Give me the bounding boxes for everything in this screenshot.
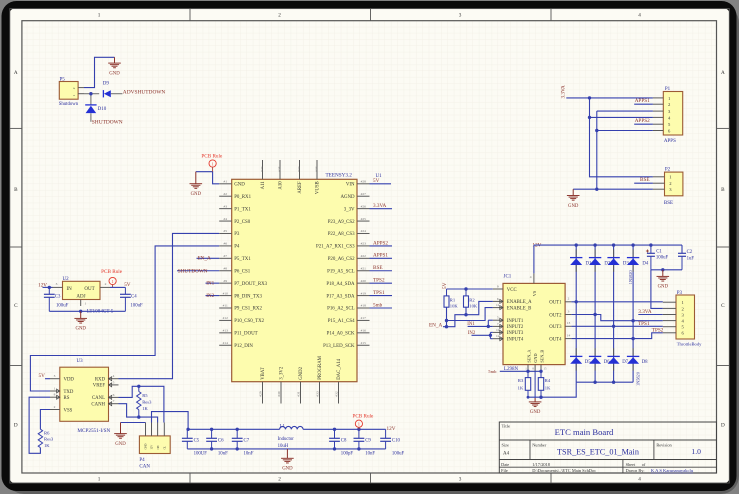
directive PCB Rule (U1): [201, 153, 223, 171]
capacitor C1 100uF: [646, 243, 669, 269]
capacitor C4 100uF: [120, 287, 143, 311]
junctions EN_A net: [445, 313, 468, 328]
net label TPS1 (P3 pin5): [638, 321, 650, 327]
svg-text:IN1: IN1: [206, 280, 214, 286]
svg-text:3: 3: [459, 13, 462, 19]
JC1 pin 14 (OUT4): [549, 333, 571, 342]
svg-text:9: 9: [497, 285, 499, 289]
ground GND (C1 C2): [657, 270, 670, 290]
net label IN2 (U1 P8) with wire: [206, 293, 220, 299]
svg-text:IN2: IN2: [468, 331, 476, 336]
svg-text:P22_A8_CS3: P22_A8_CS3: [328, 232, 355, 237]
svg-text:#29: #29: [259, 391, 263, 397]
svg-text:ENABLE_B: ENABLE_B: [507, 306, 532, 311]
U1 pin 14 (P12_DIN): [219, 341, 253, 349]
svg-text:CANL: CANL: [92, 396, 105, 401]
diode D9: [103, 82, 111, 98]
U1 pin 8 (P6_CS1): [219, 266, 251, 274]
junction R5 bottom: [137, 415, 140, 418]
svg-text:B: B: [721, 187, 725, 193]
U1 pin 10 (P8_DIN_TX3): [219, 291, 262, 299]
wire P1 pin3 ground branch: [597, 110, 653, 112]
svg-text:2: 2: [54, 405, 56, 409]
svg-text:INPUT3: INPUT3: [507, 331, 524, 336]
svg-text:2: 2: [72, 87, 76, 89]
svg-text:D4: D4: [642, 261, 648, 266]
svg-text:ENABLE_A: ENABLE_A: [507, 300, 532, 305]
svg-text:A: A: [14, 70, 18, 76]
U1 bottom pin 33 (PROGRAM): [316, 355, 324, 403]
svg-text:P5_TX1: P5_TX1: [234, 257, 251, 262]
svg-text:#8: #8: [223, 266, 227, 270]
resistor R4 1K: [538, 371, 551, 397]
junction C9: [357, 428, 360, 451]
svg-text:3.3VA: 3.3VA: [561, 85, 567, 99]
svg-text:OUT2: OUT2: [549, 313, 562, 318]
U3 pin 6 (CANL): [92, 393, 119, 401]
svg-text:B: B: [14, 187, 18, 193]
U1 bottom pin 29 (VBAT): [259, 367, 267, 403]
svg-text:#25: #25: [277, 166, 281, 172]
svg-text:CH: CH: [157, 446, 160, 450]
junction C7: [236, 428, 239, 451]
svg-text:Inductor: Inductor: [278, 437, 295, 442]
svg-text:AGND: AGND: [340, 195, 355, 200]
svg-text:P18_A4_SDA: P18_A4_SDA: [326, 282, 355, 287]
connector P4 CAN: [139, 423, 170, 470]
svg-text:P7_DOUT_RX3: P7_DOUT_RX3: [234, 282, 267, 287]
wire U1 P4 to U3 TXD: [30, 246, 219, 391]
svg-text:7: 7: [113, 399, 115, 403]
wire U1 GND pin1 to ground via PCB rule node: [196, 172, 219, 184]
svg-text:JC1: JC1: [504, 275, 512, 280]
svg-text:#10: #10: [223, 291, 229, 295]
svg-text:EN_A: EN_A: [429, 322, 443, 328]
svg-text:10nF: 10nF: [218, 451, 228, 456]
svg-text:#27: #27: [361, 192, 367, 196]
svg-text:GND: GND: [568, 204, 579, 209]
U1 pin 21 (P19_A5_SCL): [327, 266, 369, 274]
svg-text:100uF: 100uF: [392, 451, 405, 456]
svg-text:12: 12: [496, 334, 500, 338]
net label SHUTDOWN (U1 P6_CS1) with wire: [177, 268, 219, 274]
svg-text:4: 4: [530, 275, 532, 279]
svg-text:P21_A7_RX1_CS3: P21_A7_RX1_CS3: [316, 245, 355, 250]
wire diode return rail: [528, 382, 576, 397]
svg-text:#32: #32: [297, 166, 301, 172]
svg-text:#32: #32: [335, 391, 339, 397]
svg-text:C7: C7: [244, 439, 250, 444]
wire R2 bottom to ENABLE_A: [466, 301, 493, 314]
svg-text:Res3: Res3: [142, 399, 152, 404]
wire U3 CANL to P4 pin4: [119, 386, 164, 422]
svg-text:100uF: 100uF: [130, 304, 143, 309]
diode D8 1N5820: [627, 348, 648, 370]
svg-text:EN_A: EN_A: [198, 256, 212, 262]
svg-text:5V: 5V: [373, 178, 380, 184]
svg-text:P9_CS1_RX2: P9_CS1_RX2: [234, 307, 262, 312]
U1 pin 9 (P7_DOUT_RX3): [219, 279, 267, 287]
wire U2 bottom rail: [49, 310, 125, 312]
wire GND to P2 pin3: [573, 188, 653, 190]
U1 pin 26 (3_3V): [344, 204, 370, 212]
svg-text:D10: D10: [98, 107, 107, 112]
svg-text:TSR_ES_ETC_01_Main: TSR_ES_ETC_01_Main: [557, 447, 639, 456]
net label EN_A (U1 P5_TX1) with wire: [197, 256, 220, 262]
wire U3 VSS to R6 top: [40, 410, 50, 430]
svg-text:D7: D7: [622, 360, 628, 365]
svg-text:P2_CS0: P2_CS0: [234, 220, 251, 225]
svg-text:File: File: [501, 468, 508, 473]
JC1 pin 5 (INPUT1): [493, 316, 524, 324]
junction ADJ bottom: [79, 310, 82, 313]
net label APPS1 (P1 pin2) with wire: [634, 98, 653, 104]
svg-text:3: 3: [568, 309, 570, 313]
ground GND (P5): [108, 57, 121, 76]
junction R5 top: [137, 385, 140, 388]
svg-text:P2: P2: [665, 168, 671, 173]
svg-text:3: 3: [54, 374, 56, 378]
U1 pin 6 (P4): [219, 242, 240, 250]
svg-text:GND: GND: [234, 183, 245, 188]
part name LT1084CT-5: [87, 309, 114, 315]
svg-text:C1: C1: [656, 250, 662, 255]
net label 5V (JC1 VCC): [442, 282, 448, 289]
svg-text:1uF: 1uF: [687, 257, 695, 262]
wire U1 P3 to U3 RXD: [119, 233, 220, 378]
svg-text:TEENSY3.2: TEENSY3.2: [326, 173, 353, 179]
svg-text:CAN: CAN: [139, 464, 150, 469]
wire 3.3VA to P1 pin1: [566, 96, 653, 99]
svg-text:4: 4: [638, 13, 641, 19]
U3 pin 2 (VSS): [50, 405, 73, 413]
JC1 bottom pins 1,8,15: [525, 365, 547, 372]
net label APPS1 (U1 pin 22) with wire: [370, 253, 393, 259]
svg-text:SHUTDOWN: SHUTDOWN: [178, 268, 208, 274]
svg-text:#9: #9: [223, 279, 227, 283]
svg-text:R2: R2: [469, 298, 475, 303]
wire P5 pin2 to GND: [84, 57, 115, 87]
svg-text:K A S Karunanayakclu: K A S Karunanayakclu: [651, 468, 694, 473]
title block: [499, 422, 716, 473]
wire diode column 3: [613, 245, 615, 382]
svg-text:5V: 5V: [124, 282, 131, 288]
U1 pin 23 (P21_A7_RX1_CS3): [316, 242, 369, 250]
svg-text:1K: 1K: [44, 443, 50, 448]
net label 3.3VA (P3 pin3) with wire: [638, 309, 663, 315]
net label TPS2 (U1 pin 20) with wire: [370, 278, 393, 284]
net label IN2 (JC1) with wire: [468, 331, 493, 339]
net label 3.3VA (APPS) rotated: [561, 85, 567, 99]
svg-text:SEN_A: SEN_A: [527, 350, 532, 363]
regulator U2 LT1084CT-5 body: [63, 277, 101, 300]
svg-text:3.3VA: 3.3VA: [638, 309, 652, 315]
svg-text:P0_RX1: P0_RX1: [234, 195, 251, 200]
svg-text:TPS2: TPS2: [652, 328, 664, 334]
wire U2 OUT to 5V: [110, 286, 125, 288]
net label IN1 (JC1) with wire: [467, 320, 493, 328]
svg-text:14: 14: [567, 333, 571, 337]
svg-text:INPUT1: INPUT1: [507, 319, 524, 324]
U1 pin 13 (P11_DOUT): [219, 329, 257, 337]
svg-text:Res3: Res3: [44, 437, 54, 442]
capacitor C3 100uF: [44, 287, 69, 311]
svg-text:GND: GND: [530, 410, 541, 415]
svg-text:P17_A3_SDA: P17_A3_SDA: [326, 294, 355, 299]
wire ground rail to P3 pin2: [651, 270, 663, 309]
svg-text:1N5820: 1N5820: [628, 270, 633, 284]
svg-text:APPS1: APPS1: [635, 98, 650, 104]
svg-text:Number: Number: [532, 442, 547, 447]
diode D7 1N5820: [607, 348, 628, 370]
svg-text:R3: R3: [518, 378, 524, 383]
svg-text:PCB Rule: PCB Rule: [352, 413, 374, 419]
svg-text:TPS1: TPS1: [373, 290, 385, 296]
svg-text:VBAT: VBAT: [261, 367, 266, 380]
svg-text:GND: GND: [145, 443, 148, 449]
microcontroller U1 TEENSY3.2 body: [232, 173, 382, 382]
JC1 pin 7 (INPUT2): [493, 322, 524, 330]
wire diode column 4: [632, 245, 634, 382]
svg-text:PCB Rule: PCB Rule: [201, 153, 223, 159]
svg-text:U3: U3: [77, 359, 84, 364]
svg-text:#33: #33: [314, 166, 318, 172]
svg-text:TPS1: TPS1: [638, 321, 650, 327]
svg-text:15: 15: [544, 366, 548, 370]
ground GND (APPS): [567, 189, 580, 209]
svg-text:C: C: [14, 303, 18, 309]
net label TPS1 (U1 pin 19) with wire: [370, 290, 393, 296]
svg-text:A4: A4: [503, 452, 510, 457]
inductor L1 10uH: [278, 424, 304, 448]
svg-text:GND: GND: [75, 327, 86, 332]
svg-text:C6: C6: [218, 439, 224, 444]
svg-text:6: 6: [497, 297, 499, 301]
svg-text:1.0: 1.0: [691, 447, 701, 456]
svg-text:GND: GND: [658, 285, 669, 290]
svg-text:Revision: Revision: [656, 442, 672, 447]
wire P4 pin2 to 12V rail: [152, 412, 189, 430]
svg-text:10nF: 10nF: [244, 451, 254, 456]
resistor R6 Res3 1K: [38, 429, 54, 448]
svg-text:P1_TX1: P1_TX1: [234, 207, 251, 212]
svg-text:10nF: 10nF: [365, 451, 375, 456]
svg-text:Drawn By:: Drawn By:: [626, 468, 645, 473]
wire P1 pin6 ground branch: [595, 129, 653, 132]
svg-text:GND: GND: [533, 354, 538, 363]
svg-text:8: 8: [54, 393, 56, 397]
svg-text:1K: 1K: [518, 386, 524, 391]
U1 pin 17 (P15_A1_CS4): [328, 316, 370, 324]
svg-text:VUSB: VUSB: [316, 181, 321, 194]
svg-text:L1: L1: [280, 424, 286, 429]
svg-text:5V: 5V: [39, 373, 46, 379]
svg-text:#24: #24: [361, 229, 367, 233]
svg-text:Sheet: Sheet: [626, 462, 636, 467]
svg-text:5V: 5V: [442, 282, 448, 289]
svg-text:RXD: RXD: [95, 378, 106, 383]
svg-text:OUT3: OUT3: [549, 325, 562, 330]
JC1 pin 3 (OUT2): [549, 309, 571, 318]
svg-text:#21: #21: [361, 266, 367, 270]
svg-text:#30: #30: [277, 391, 281, 397]
capacitor C5 100UF: [182, 429, 207, 456]
wire filter bottom rail: [187, 448, 385, 450]
U1 pin 20 (P18_A4_SDA): [326, 279, 369, 287]
svg-text:BSE: BSE: [373, 265, 383, 271]
svg-text:P3: P3: [234, 232, 240, 237]
wire U3 RS to R6 bottom: [29, 397, 50, 453]
junction 12V rail col 3: [612, 243, 615, 246]
connector P3 ThrottleBody: [663, 291, 702, 346]
net label BSE (U1 pin 21) with wire: [370, 265, 393, 271]
JC1 pin 11 (ENABLE_B): [493, 303, 532, 311]
svg-text:#2: #2: [223, 192, 227, 196]
svg-text:Shutdown: Shutdown: [59, 102, 79, 107]
svg-text:10K: 10K: [450, 304, 459, 309]
svg-text:GND: GND: [282, 467, 293, 472]
svg-text:SEN_B: SEN_B: [539, 350, 544, 363]
value label 1N5820 (bottom row): [635, 372, 640, 386]
svg-text:CL: CL: [164, 446, 167, 450]
svg-text:#23: #23: [361, 242, 367, 246]
svg-text:#26: #26: [361, 204, 367, 208]
svg-text:P16_A2_SCL: P16_A2_SCL: [327, 307, 354, 312]
svg-text:1: 1: [98, 477, 101, 483]
svg-text:3_3V: 3_3V: [344, 207, 355, 212]
part name MCP2551-I/SN: [77, 428, 110, 434]
capacitor C9 10nF: [354, 429, 376, 456]
svg-text:#31: #31: [297, 391, 301, 397]
svg-text:C8: C8: [341, 439, 347, 444]
svg-text:2: 2: [278, 13, 281, 19]
svg-text:5mb: 5mb: [488, 369, 497, 374]
svg-text:3: 3: [459, 477, 462, 483]
U3 pin 1 (TXD): [50, 387, 74, 395]
diode D3 1N5820: [607, 249, 629, 271]
junction 12V rail col 4: [631, 243, 634, 246]
wire ground vertical (sensors): [595, 111, 598, 191]
svg-text:C5: C5: [194, 439, 200, 444]
wire C1 C2 ground rail: [651, 268, 682, 271]
JC1 pin 4 (VS): [530, 273, 534, 283]
svg-text:13: 13: [567, 321, 571, 325]
svg-text:ADJ: ADJ: [76, 294, 85, 299]
U1 pin 12 (P10_CS0_TX2): [219, 316, 264, 324]
svg-text:CANH: CANH: [91, 403, 105, 408]
svg-text:Date: Date: [501, 462, 509, 467]
wire OUT1 to P3 pin1: [571, 300, 662, 303]
svg-text:10K: 10K: [469, 304, 478, 309]
svg-text:VSS: VSS: [64, 408, 73, 413]
svg-text:#6: #6: [223, 242, 227, 246]
junction C6: [210, 428, 213, 451]
wire 12V to U2 IN: [43, 286, 53, 288]
svg-text:ETC main Board: ETC main Board: [555, 427, 614, 437]
svg-text:#1: #1: [223, 180, 227, 184]
U1 pin 15 (P13_LED_SCK): [323, 341, 369, 349]
U2 pin 3 (IN): [53, 282, 63, 287]
svg-text:P8_DIN_TX3: P8_DIN_TX3: [234, 294, 262, 299]
net label APPS2 (P1 pin5) with wire: [634, 118, 653, 124]
transceiver U3 MCP2551 body: [60, 359, 109, 422]
svg-text:A: A: [721, 70, 725, 76]
svg-text:#13: #13: [223, 329, 229, 333]
diode D2 1N5820: [589, 249, 611, 271]
svg-text:R5: R5: [142, 393, 148, 398]
svg-text:#3: #3: [223, 204, 227, 208]
net label ADVSHUTDOWN: [123, 89, 166, 95]
svg-text:#4: #4: [223, 217, 227, 221]
svg-text:P3: P3: [677, 291, 683, 296]
U3 pin 8 (RS): [50, 393, 70, 401]
svg-text:IN1: IN1: [467, 322, 475, 327]
svg-text:7: 7: [497, 322, 499, 326]
junction C5 top: [186, 428, 189, 431]
svg-text:5: 5: [113, 380, 115, 384]
svg-text:3.3VA: 3.3VA: [373, 203, 387, 209]
net label 5mb (U1 pin 18) with wire: [370, 302, 393, 308]
diode D5 1N5820: [570, 348, 591, 370]
svg-text:OUT4: OUT4: [549, 337, 562, 342]
wire R1 bottom vertical: [446, 307, 448, 327]
svg-text:R4: R4: [545, 378, 551, 383]
junction P5 net: [89, 92, 92, 95]
U1 pin 24 (P22_A8_CS3): [328, 229, 370, 237]
wire P1 pin4 supply branch: [588, 116, 653, 119]
JC1 pin 10 (INPUT3): [493, 328, 524, 336]
svg-text:#20: #20: [361, 279, 367, 283]
JC1 pin 9 (VCC): [493, 285, 517, 293]
net label SHUTDOWN: [92, 119, 123, 125]
svg-text:ADVSHUTDOWN: ADVSHUTDOWN: [123, 89, 166, 95]
driver JC1 L298N body: [503, 275, 565, 372]
svg-text:6: 6: [113, 393, 115, 397]
U3 pin 4 (RXD): [95, 374, 119, 382]
svg-text:P15_A1_CS4: P15_A1_CS4: [328, 319, 355, 324]
svg-text:R1: R1: [450, 298, 456, 303]
resistor R2 10K: [464, 289, 478, 309]
ground GND (filter): [281, 449, 294, 472]
net label 5V (U2 OUT): [124, 282, 131, 288]
svg-text:1N5820: 1N5820: [635, 372, 640, 386]
svg-text:SHUTDOWN: SHUTDOWN: [92, 119, 123, 125]
svg-text:VS: VS: [532, 290, 537, 296]
svg-text:INPUT4: INPUT4: [507, 338, 524, 343]
wire U3 CANH to P4 pin3: [119, 404, 158, 423]
ground GND (P4): [114, 423, 127, 447]
junction R2 top: [464, 287, 467, 290]
svg-text:10uH: 10uH: [278, 444, 289, 449]
svg-text:D9: D9: [103, 82, 110, 87]
JC1 pin 12 (INPUT4): [493, 334, 524, 342]
resistor R3 1K: [518, 371, 531, 397]
value label 1N5820 (top row): [628, 270, 633, 284]
net label 12V (JC1 VS): [532, 242, 541, 248]
svg-text:PCB Rule: PCB Rule: [101, 269, 123, 275]
svg-text:D:\Documents\..\ETC Main SchDo: D:\Documents\..\ETC Main SchDoc: [532, 468, 596, 473]
wire EN_A branch to ENABLE_B: [447, 308, 493, 321]
wire GND to P4 pin1: [121, 422, 146, 424]
svg-text:A11: A11: [261, 181, 266, 190]
U1 pin 18 (P16_A2_SCL): [327, 304, 369, 312]
capacitor C2 1uF: [678, 245, 694, 270]
U1 pin 19 (P17_A3_SDA): [326, 291, 369, 299]
net label EN_A (JC1) with wire: [429, 315, 466, 329]
U1 pin 11 (P9_CS1_RX2): [219, 304, 262, 312]
junction 12V rail col 2: [593, 243, 596, 246]
svg-text:C4: C4: [131, 295, 137, 300]
